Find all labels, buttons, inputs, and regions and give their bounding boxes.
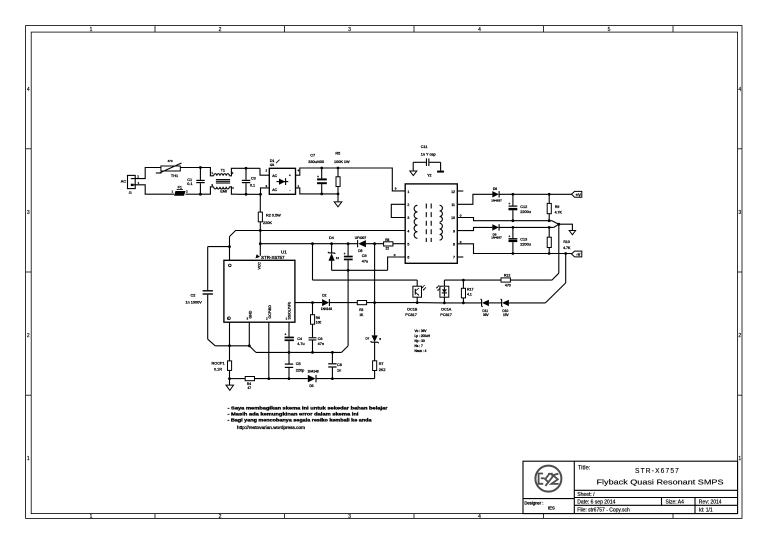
svg-text:- Bagi yang mencobanya segala: - Bagi yang mencobanya segala resiko kem… — [228, 418, 373, 423]
svg-text:1N4937: 1N4937 — [491, 236, 502, 240]
wire — [228, 322, 231, 361]
svg-text:-V: -V — [576, 252, 580, 257]
svg-text:R6: R6 — [316, 316, 320, 320]
svg-text:Id: 1/1: Id: 1/1 — [699, 508, 713, 514]
wire — [259, 231, 262, 256]
svg-text:4: 4 — [738, 87, 741, 93]
svg-text:2K2: 2K2 — [379, 368, 386, 372]
svg-text:220p: 220p — [296, 369, 304, 373]
wire — [228, 237, 231, 261]
wire common junction — [552, 221, 573, 231]
svg-text:R7: R7 — [379, 362, 384, 366]
svg-text:4: 4 — [27, 87, 30, 93]
svg-text:+: + — [508, 234, 510, 238]
resistor R3 — [357, 301, 417, 317]
svg-text:9: 9 — [453, 229, 455, 233]
capacitor C9 — [344, 244, 369, 271]
svg-text:2: 2 — [407, 203, 409, 207]
svg-text:- Saya membagikan skema ini un: - Saya membagikan skema ini untuk sekeda… — [228, 405, 388, 410]
ground — [410, 171, 417, 176]
svg-text:4: 4 — [478, 514, 481, 520]
svg-text:4.7K: 4.7K — [555, 211, 563, 215]
svg-text:470: 470 — [505, 283, 511, 287]
title block — [523, 461, 738, 513]
svg-text:C13: C13 — [520, 238, 527, 242]
svg-text:VCC: VCC — [258, 262, 262, 270]
diode D3 1N4148 — [308, 369, 319, 388]
svg-text:ROCP1: ROCP1 — [212, 362, 225, 366]
transformer note — [415, 329, 431, 353]
wire — [296, 188, 322, 194]
svg-text:1: 1 — [738, 456, 741, 462]
svg-text:GND: GND — [249, 310, 253, 318]
svg-text:15V: 15V — [503, 313, 510, 317]
resistor R17 — [461, 280, 473, 304]
capacitor C1 — [187, 166, 204, 196]
svg-text:R2 0.5W: R2 0.5W — [266, 214, 281, 218]
svg-text:2200u: 2200u — [520, 210, 531, 214]
diode D5 UF4007 — [355, 236, 367, 253]
svg-text:C6: C6 — [318, 337, 323, 341]
svg-text:C9: C9 — [362, 254, 367, 258]
optocoupler OC1B PC817 — [405, 285, 426, 317]
svg-text:U1: U1 — [281, 250, 287, 255]
bridge rectifier D1 — [265, 159, 299, 194]
wire zener row — [444, 254, 565, 303]
wire — [261, 188, 270, 194]
resistor R2 — [258, 193, 281, 231]
svg-text:AC: AC — [272, 188, 277, 192]
svg-text:3: 3 — [27, 210, 30, 216]
svg-text:Date: 6 sep 2014: Date: 6 sep 2014 — [577, 500, 615, 506]
svg-text:11: 11 — [451, 203, 455, 207]
svg-text:1: 1 — [27, 456, 30, 462]
note text — [228, 405, 388, 430]
ground — [334, 194, 342, 207]
IC U1 STR-X6757 — [224, 250, 295, 322]
svg-text:10: 10 — [451, 216, 455, 220]
svg-text:D2: D2 — [322, 294, 326, 298]
wire signal ground bus — [215, 345, 249, 347]
svg-text:1n 1000V: 1n 1000V — [186, 301, 203, 305]
svg-text:0.1: 0.1 — [250, 183, 255, 187]
wire — [288, 322, 290, 336]
capacitor C2 — [186, 247, 216, 346]
svg-text:470: 470 — [167, 159, 172, 163]
capacitor C11 — [413, 145, 440, 177]
wire pins 2-3 bracket — [391, 204, 405, 217]
resistor R7 — [373, 361, 386, 379]
svg-text:PC817: PC817 — [405, 313, 417, 317]
svg-text:EMI: EMI — [220, 190, 227, 194]
EMI choke T1 — [200, 168, 237, 195]
svg-text:1N4148: 1N4148 — [308, 369, 319, 373]
svg-text:4: 4 — [478, 27, 481, 33]
svg-text:+: + — [317, 175, 319, 179]
svg-text:Title:: Title: — [578, 465, 591, 471]
zener D10 15V — [501, 299, 510, 317]
svg-text:STR-X6757: STR-X6757 — [635, 468, 680, 475]
svg-text:C11: C11 — [421, 145, 428, 149]
wire — [180, 167, 200, 169]
svg-text:100K 1W: 100K 1W — [334, 160, 350, 164]
svg-text:3: 3 — [348, 514, 351, 520]
svg-text:C4: C4 — [297, 337, 302, 341]
svg-text:R8: R8 — [385, 238, 389, 242]
svg-text:OC1B: OC1B — [407, 308, 418, 312]
resistor ROCP1 — [212, 361, 232, 379]
svg-text:1: 1 — [90, 514, 93, 520]
connector J1 AC input — [121, 174, 140, 194]
svg-text:47n: 47n — [318, 342, 324, 346]
svg-text:330u/400: 330u/400 — [308, 160, 324, 164]
wire — [296, 168, 322, 175]
wire — [322, 167, 338, 169]
capacitor C12 — [508, 194, 531, 220]
svg-text:2: 2 — [219, 514, 222, 520]
svg-text:+: + — [284, 333, 286, 337]
svg-text:Ns : 7: Ns : 7 — [415, 344, 424, 348]
svg-text:T1: T1 — [221, 169, 225, 173]
wire pin12 stub — [457, 190, 463, 192]
svg-text:Vo : 36V: Vo : 36V — [415, 329, 428, 333]
svg-text:http://restovarian.wordpress.c: http://restovarian.wordpress.com — [237, 425, 306, 430]
svg-text:C2: C2 — [191, 294, 196, 298]
svg-text:4.1: 4.1 — [467, 293, 472, 297]
svg-text:D6: D6 — [493, 187, 497, 191]
svg-text:Designer :: Designer : — [524, 500, 543, 505]
svg-text:J1: J1 — [129, 190, 133, 194]
wire Vcc to optocoupler — [313, 244, 418, 287]
capacitor C3 — [242, 167, 256, 196]
capacitor C4 — [284, 333, 304, 353]
wire — [248, 322, 256, 352]
svg-text:R5: R5 — [335, 152, 340, 156]
fuse F1 — [135, 185, 200, 196]
svg-text:Rev: 2014: Rev: 2014 — [699, 500, 722, 506]
svg-text:Sheet: /: Sheet: / — [577, 492, 595, 498]
svg-text:2: 2 — [219, 27, 222, 33]
capacitor C6 — [309, 337, 324, 352]
zener D4 — [328, 236, 339, 270]
svg-text:1n Y cap: 1n Y cap — [421, 152, 436, 156]
svg-text:R3: R3 — [359, 308, 363, 312]
resistor R5 — [334, 152, 350, 196]
wire gnd rail — [256, 346, 348, 354]
svg-text:Lp : 200uH: Lp : 200uH — [415, 334, 431, 338]
wire Vcc rail — [260, 242, 405, 245]
svg-text:6: 6 — [407, 256, 409, 260]
svg-text:PC817: PC817 — [440, 313, 452, 317]
svg-text:D7: D7 — [366, 337, 370, 341]
wire opto top rail — [444, 224, 558, 281]
svg-text:AC: AC — [272, 174, 277, 178]
wire pin8 to -V rail — [457, 240, 571, 255]
wire pin10 common — [457, 214, 552, 222]
svg-text:C5: C5 — [296, 362, 301, 366]
wire aux return — [332, 253, 406, 346]
wire — [237, 167, 260, 169]
svg-text:12: 12 — [451, 190, 455, 194]
wire — [135, 168, 161, 179]
svg-text:AC: AC — [121, 179, 127, 183]
svg-text:Naux : 4: Naux : 4 — [415, 349, 427, 353]
svg-text:1n: 1n — [337, 369, 341, 373]
wire drain rail — [230, 229, 406, 236]
wire — [260, 168, 269, 175]
wire pin11 to D6 — [457, 194, 492, 204]
svg-text:R9: R9 — [555, 205, 560, 209]
svg-text:47u: 47u — [362, 259, 368, 263]
svg-text:1: 1 — [90, 27, 93, 33]
ground — [569, 231, 575, 235]
svg-text:5: 5 — [608, 27, 611, 33]
svg-text:22: 22 — [386, 246, 390, 250]
svg-text:+: + — [289, 174, 291, 178]
svg-text:12: 12 — [336, 256, 340, 260]
diode D2 1N4148 — [321, 294, 358, 312]
svg-text:8: 8 — [453, 243, 455, 247]
resistor R9 — [547, 194, 562, 220]
svg-text:TH1: TH1 — [171, 174, 178, 178]
capacitor C8 — [328, 352, 342, 378]
svg-text:IES: IES — [548, 505, 555, 510]
svg-text:STR-X6757: STR-X6757 — [261, 255, 285, 260]
transformer T2 — [405, 184, 457, 263]
thermistor TH1 — [156, 159, 182, 178]
ground earth — [437, 171, 444, 173]
svg-text:0.1R: 0.1R — [214, 367, 222, 371]
svg-text:Np : 30: Np : 30 — [415, 339, 426, 343]
svg-text:1N4937: 1N4937 — [491, 199, 502, 203]
resistor R10 — [547, 227, 571, 253]
wire — [237, 193, 260, 195]
resistor R4 — [245, 377, 254, 390]
svg-text:File: str6757 - Copy.sch: File: str6757 - Copy.sch — [577, 508, 630, 514]
ground — [226, 377, 234, 390]
svg-text:3: 3 — [738, 210, 741, 216]
resistor R6 — [311, 303, 322, 338]
svg-text:7: 7 — [453, 256, 455, 260]
wire — [417, 302, 444, 304]
wire zener chain — [373, 244, 376, 336]
svg-text:+: + — [508, 202, 510, 206]
svg-text:R12: R12 — [504, 274, 510, 278]
connector +V — [572, 191, 582, 197]
svg-text:0.1: 0.1 — [187, 182, 192, 186]
capacitor C7 — [308, 154, 327, 196]
svg-text:OCP/BD: OCP/BD — [268, 305, 272, 319]
svg-text:F1: F1 — [178, 186, 182, 190]
svg-text:D5: D5 — [358, 249, 362, 253]
svg-text:4.7K: 4.7K — [563, 246, 571, 250]
connector -V — [572, 251, 582, 257]
svg-text:C12: C12 — [520, 205, 527, 209]
wire — [338, 168, 405, 191]
wire FB row — [295, 301, 322, 304]
svg-text:4.7u: 4.7u — [297, 342, 304, 346]
wire — [268, 322, 270, 378]
svg-text:Y2: Y2 — [427, 173, 431, 177]
svg-text:5: 5 — [407, 243, 409, 247]
capacitor C5 — [285, 352, 304, 378]
svg-text:C7: C7 — [310, 154, 315, 158]
svg-text:C8: C8 — [337, 363, 342, 367]
svg-text:Size: A4: Size: A4 — [666, 500, 685, 506]
svg-text:R10: R10 — [563, 240, 569, 244]
svg-text:3: 3 — [407, 216, 409, 220]
svg-text:- Masih ada kemungkinan error: - Masih ada kemungkinan error dalam skem… — [228, 411, 359, 416]
svg-text:47: 47 — [248, 386, 252, 390]
svg-text:Flyback Quasi Resonant SMPS: Flyback Quasi Resonant SMPS — [597, 479, 724, 486]
diode D6 1N4937 — [491, 187, 571, 202]
svg-text:4: 4 — [407, 229, 409, 233]
svg-text:220K: 220K — [263, 221, 272, 225]
svg-text:R17: R17 — [467, 287, 473, 291]
resistor R12 — [501, 274, 511, 288]
svg-text:1N4148: 1N4148 — [321, 307, 332, 311]
svg-text:2: 2 — [738, 333, 741, 339]
optocoupler OC1A PC817 — [436, 280, 452, 317]
zener D7 — [366, 335, 382, 360]
wire pin9 to D9 — [457, 227, 492, 230]
svg-text:D3: D3 — [310, 384, 314, 388]
svg-text:2: 2 — [27, 333, 30, 339]
svg-text:4A: 4A — [270, 163, 275, 167]
resistor R8 — [384, 238, 393, 251]
capacitor C13 — [508, 227, 531, 253]
svg-text:100: 100 — [316, 321, 322, 325]
svg-text:D4: D4 — [329, 236, 334, 240]
svg-text:36V: 36V — [483, 313, 490, 317]
diode D9 1N4937 — [491, 224, 554, 239]
wire — [322, 193, 338, 195]
svg-text:+V: +V — [576, 192, 581, 197]
svg-text:C3: C3 — [251, 177, 256, 181]
svg-text:1: 1 — [407, 190, 409, 194]
svg-text:3: 3 — [348, 27, 351, 33]
svg-text:2200u: 2200u — [520, 243, 531, 247]
svg-text:UF4007: UF4007 — [355, 236, 367, 240]
wire bottom rail — [230, 377, 375, 380]
svg-text:OC1A: OC1A — [441, 308, 452, 312]
zener D11 36V — [481, 299, 490, 317]
svg-text:+: + — [344, 252, 346, 256]
svg-text:SS/OLP/Fb: SS/OLP/Fb — [288, 302, 292, 320]
wire — [208, 246, 230, 248]
wire pin7 stub — [457, 256, 463, 258]
